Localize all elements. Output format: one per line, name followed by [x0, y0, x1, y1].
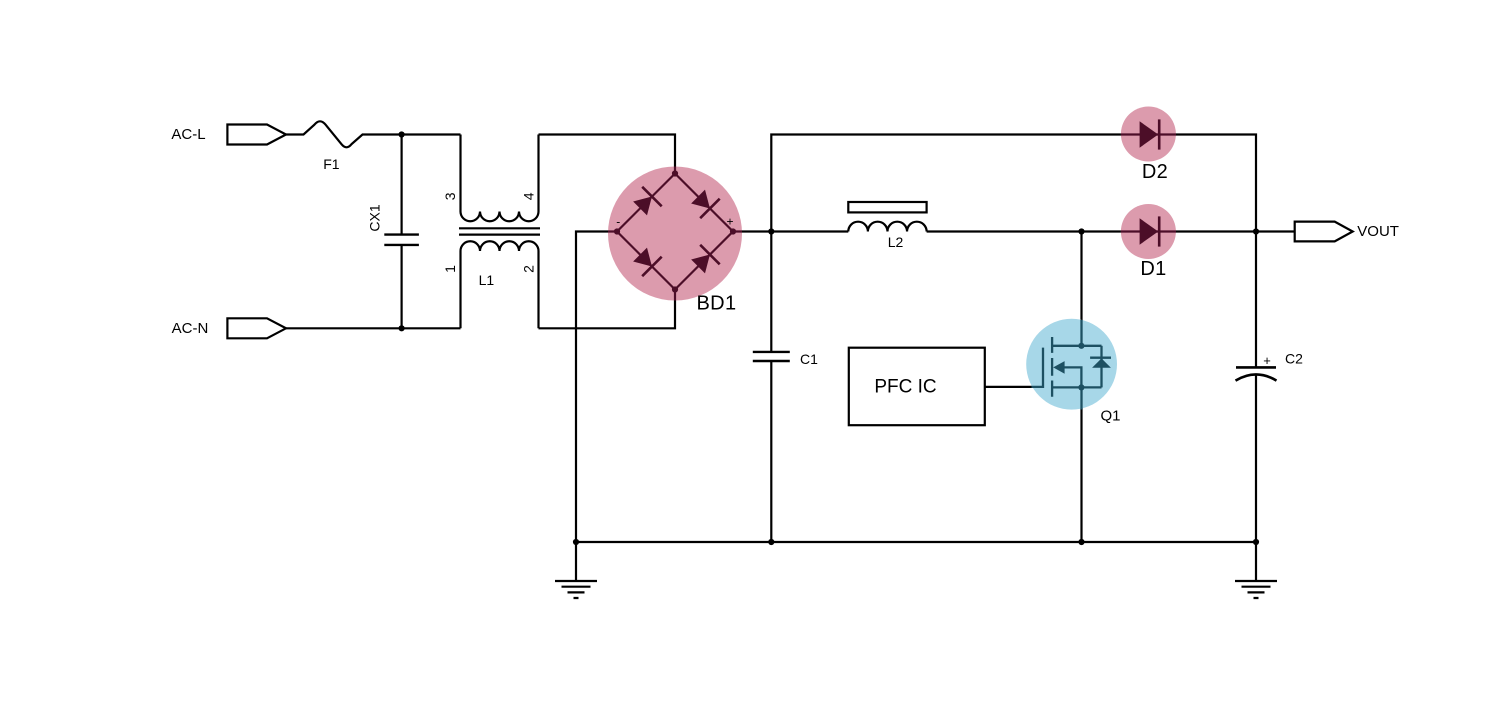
inductor L1 common-mode choke [459, 135, 540, 329]
connector AC-N [172, 318, 286, 338]
svg-text:Q1: Q1 [1100, 408, 1120, 425]
node BD1 minus [614, 228, 620, 234]
wire Q1 drain [1080, 232, 1082, 346]
svg-text:L2: L2 [888, 234, 904, 250]
Q1 arrow [1053, 361, 1064, 374]
transistor Q1 highlight circle [1026, 319, 1117, 410]
svg-text:F1: F1 [323, 156, 340, 172]
wire L1 pin 2 to bridge AC bottom [539, 290, 676, 329]
diode D1 [1121, 216, 1176, 280]
bridge rectifier BD1 [608, 167, 742, 301]
diode D2 [1121, 119, 1176, 183]
diode D2 highlight circle [1121, 107, 1176, 162]
transistor Q1 MOSFET [1032, 320, 1102, 410]
node BD1 AC top [672, 170, 678, 176]
svg-text:3: 3 [442, 192, 458, 200]
wire D2 top branch [771, 135, 1256, 232]
node AC-N junction [399, 325, 405, 331]
svg-text:D2: D2 [1142, 161, 1168, 183]
wire bridge minus to ground bus [576, 232, 617, 543]
svg-text:4: 4 [520, 192, 536, 200]
wire C1 top lead [770, 232, 772, 352]
svg-text:PFC IC: PFC IC [874, 377, 936, 398]
svg-text:2: 2 [520, 265, 536, 273]
svg-text:L1: L1 [479, 272, 495, 288]
svg-text:+: + [1263, 353, 1271, 368]
IC U1 PFC controller box [849, 348, 985, 426]
capacitor C2 polarized [1236, 351, 1304, 381]
ground left [555, 542, 597, 598]
ground right [1235, 542, 1277, 598]
bridge rectifier BD1 highlight circle [608, 167, 742, 301]
wire C2 bottom lead [1255, 375, 1257, 542]
connector VOUT [1295, 222, 1399, 242]
diode D1 highlight circle [1121, 204, 1176, 259]
wire C1 bottom lead [770, 361, 772, 542]
wire L1 pin 4 to bridge AC top [539, 135, 676, 174]
svg-text:AC-L: AC-L [171, 126, 205, 143]
node ground bus Q1 junction [1078, 539, 1084, 545]
capacitor C1 [753, 351, 818, 367]
node Q1 source [1078, 384, 1084, 390]
wire C2 top lead [1255, 232, 1257, 368]
svg-text:D1: D1 [1140, 258, 1166, 280]
svg-text:BD1: BD1 [696, 293, 736, 315]
node BD1 AC bottom [672, 286, 678, 292]
node ground bus right junction [1253, 539, 1259, 545]
node ground bus left junction [573, 539, 579, 545]
wire gate PFC IC to Q1 [985, 386, 1043, 388]
connector AC-L [171, 125, 286, 145]
node ground bus C1 junction [768, 539, 774, 545]
wire AC-L to L1 pin 3 [402, 133, 461, 135]
svg-text:1: 1 [442, 265, 458, 273]
svg-text:C2: C2 [1285, 351, 1303, 367]
svg-text:CX1: CX1 [367, 204, 383, 231]
fuse F1 [286, 121, 402, 172]
svg-text:-: - [616, 215, 620, 229]
node BD1 plus [730, 228, 736, 234]
node Q1 drain [1078, 343, 1084, 349]
inductor L2 [848, 202, 926, 250]
node rail C1 junction [768, 228, 774, 234]
wire CX1 bottom lead [401, 245, 403, 328]
wire ground bus [576, 541, 1256, 543]
diode BD1 bottom-left [633, 248, 662, 277]
node rail Q1 drain junction [1078, 228, 1084, 234]
svg-text:C1: C1 [800, 351, 818, 367]
capacitor CX1 [367, 204, 419, 245]
svg-text:VOUT: VOUT [1357, 223, 1399, 240]
svg-text:AC-N: AC-N [172, 320, 209, 337]
wire CX1 top lead [401, 135, 403, 235]
Q1 body diode [1092, 358, 1111, 367]
diode BD1 bottom-right [691, 245, 720, 274]
wire AC-N to L1 pin 1 [286, 327, 461, 329]
wire Q1 source to ground bus [1080, 387, 1082, 542]
wire main rail bridge plus to VOUT [733, 230, 1295, 232]
node rail VOUT junction [1253, 228, 1259, 234]
node AC-L junction [399, 131, 405, 137]
svg-text:+: + [726, 215, 733, 229]
diode BD1 top-left [633, 187, 662, 216]
diode BD1 top-right [691, 190, 720, 219]
